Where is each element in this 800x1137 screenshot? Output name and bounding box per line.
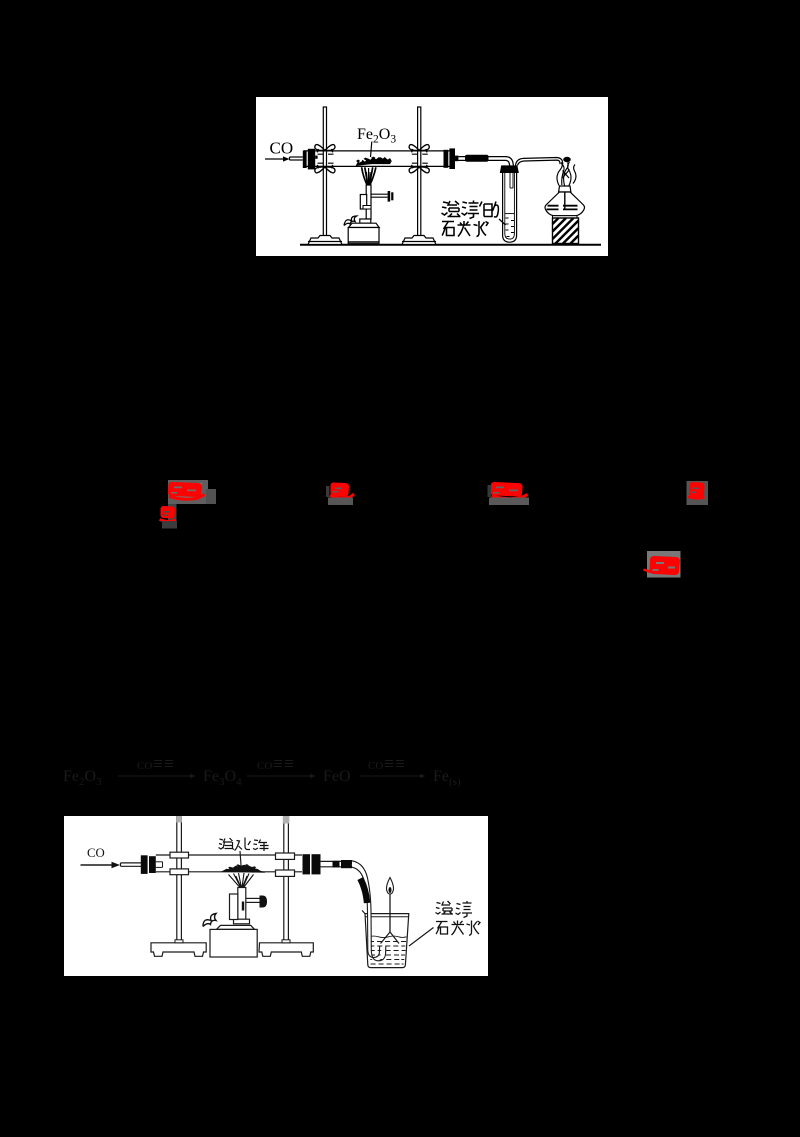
match flame [387, 878, 394, 895]
delivery tube bend down (white casing) [352, 864, 383, 959]
formula Fe [433, 768, 461, 788]
label CO over arrow 2 [257, 760, 293, 772]
left stopper [141, 855, 156, 874]
limewater in test tube [505, 214, 515, 237]
red answer C (single char) [330, 483, 354, 498]
red answer F (two dense chars) [644, 556, 681, 575]
clamp left lower [170, 869, 189, 875]
left stand pole [323, 107, 326, 236]
gray patch below B [162, 521, 177, 529]
hatched stand block [553, 218, 579, 244]
red answer E (single char) [688, 482, 705, 498]
formula Fe3O4 [203, 768, 242, 788]
burner stem [234, 888, 250, 924]
right stand pole [283, 816, 290, 943]
burner wing nut [344, 216, 357, 226]
ground line [300, 244, 601, 246]
burner collar [230, 894, 238, 920]
Fe2O3 powder in tube [356, 157, 393, 166]
clamp left upper [315, 145, 335, 155]
formula FeO [323, 768, 351, 785]
clamp left lower [315, 163, 335, 173]
test tube stopper [500, 165, 519, 173]
burner flame [362, 167, 376, 187]
tube from test tube to lamp [516, 158, 563, 166]
gray patch below D [488, 485, 530, 505]
gray patch behind F [647, 551, 681, 578]
gray patch behind answer A [168, 480, 216, 504]
test tube body [503, 173, 517, 242]
beaker [362, 910, 409, 967]
tube elbow to test tube [506, 157, 513, 166]
lamp body [545, 192, 584, 218]
label 澄清 [436, 901, 473, 918]
black hose pieces [333, 860, 353, 868]
CO inlet tube [290, 157, 303, 160]
left rubber stopper [303, 149, 318, 170]
inlet tube [121, 863, 142, 866]
label CO over arrow 3 [368, 760, 404, 772]
delivery tube horizontal [320, 861, 351, 866]
rubber hose segment [465, 155, 489, 162]
oxide pointer line [240, 851, 241, 865]
tail gas nozzle dot [563, 157, 571, 162]
arrow 1 [118, 774, 196, 778]
Fe2O3 label [357, 126, 396, 146]
tail flame [557, 162, 576, 186]
clamp right lower [276, 870, 295, 876]
left stand pole [176, 816, 182, 943]
burner wing nut [203, 914, 216, 927]
match stick and support [381, 893, 400, 944]
iron oxide powder pile [221, 864, 266, 873]
stand base right foot [259, 943, 313, 957]
inner delivery tube in test tube [510, 173, 513, 188]
equation chain line (faint dark gray) [0, 750, 800, 795]
burner side rod and knob [246, 896, 267, 908]
red answer D (two chars + swoosh) [491, 482, 528, 499]
left stand base [308, 236, 342, 245]
gray patch below C [326, 486, 353, 505]
stopper nozzle lines [156, 862, 163, 868]
CO arrow [265, 156, 290, 161]
burner stem [360, 185, 371, 223]
limewater in beaker [369, 936, 407, 964]
right stand base [402, 236, 436, 245]
Fe2O3 pointer line [371, 142, 372, 158]
pole bottom collars [175, 940, 290, 943]
flame fan under tube [229, 873, 254, 888]
label 石灰水 (shihuishui) [442, 221, 488, 237]
delivery tube bend down (outlines) [352, 861, 386, 961]
clamp right upper [276, 853, 295, 859]
clamp left upper [170, 852, 189, 858]
burner gas rod and knob [371, 191, 393, 202]
right stopper [303, 854, 321, 874]
CO label [270, 139, 294, 158]
lamp cap [559, 186, 571, 192]
CO label [87, 846, 105, 860]
delivery tube right [458, 157, 506, 161]
oxide label 氧化铁 [219, 838, 269, 852]
arrow 2 [247, 774, 316, 778]
gray patch behind E [687, 481, 709, 505]
clamp right lower [409, 163, 429, 173]
right rubber stopper [444, 148, 459, 169]
label 石灰水 [436, 921, 480, 936]
burner base dome [210, 925, 257, 957]
arrow 3 [360, 774, 426, 778]
figure 2: CO reducing iron oxide apparatus (white image box) [64, 816, 488, 976]
rubber segment on bend [360, 879, 367, 904]
right stand pole [418, 107, 421, 236]
label CO over arrow 1 [137, 760, 173, 772]
glass tube [156, 855, 302, 872]
burner collar [360, 195, 371, 210]
red answer B (single char below A) [160, 506, 176, 521]
label pointer line [409, 928, 434, 947]
red answer A (two handwritten chars + swoosh) [168, 482, 205, 499]
burner base box [348, 223, 379, 244]
CO arrow [81, 862, 121, 868]
glass tube [304, 151, 455, 167]
label pointer to test tube [499, 219, 506, 225]
label 澄清的 (chengqingde) [442, 201, 499, 219]
gray strip below A [168, 504, 177, 527]
clamp right upper [409, 145, 429, 155]
formula Fe2O3 [63, 768, 102, 788]
stand base left foot [151, 943, 206, 957]
figure 1: CO reducing Fe2O3 apparatus (white image box) [256, 97, 608, 256]
